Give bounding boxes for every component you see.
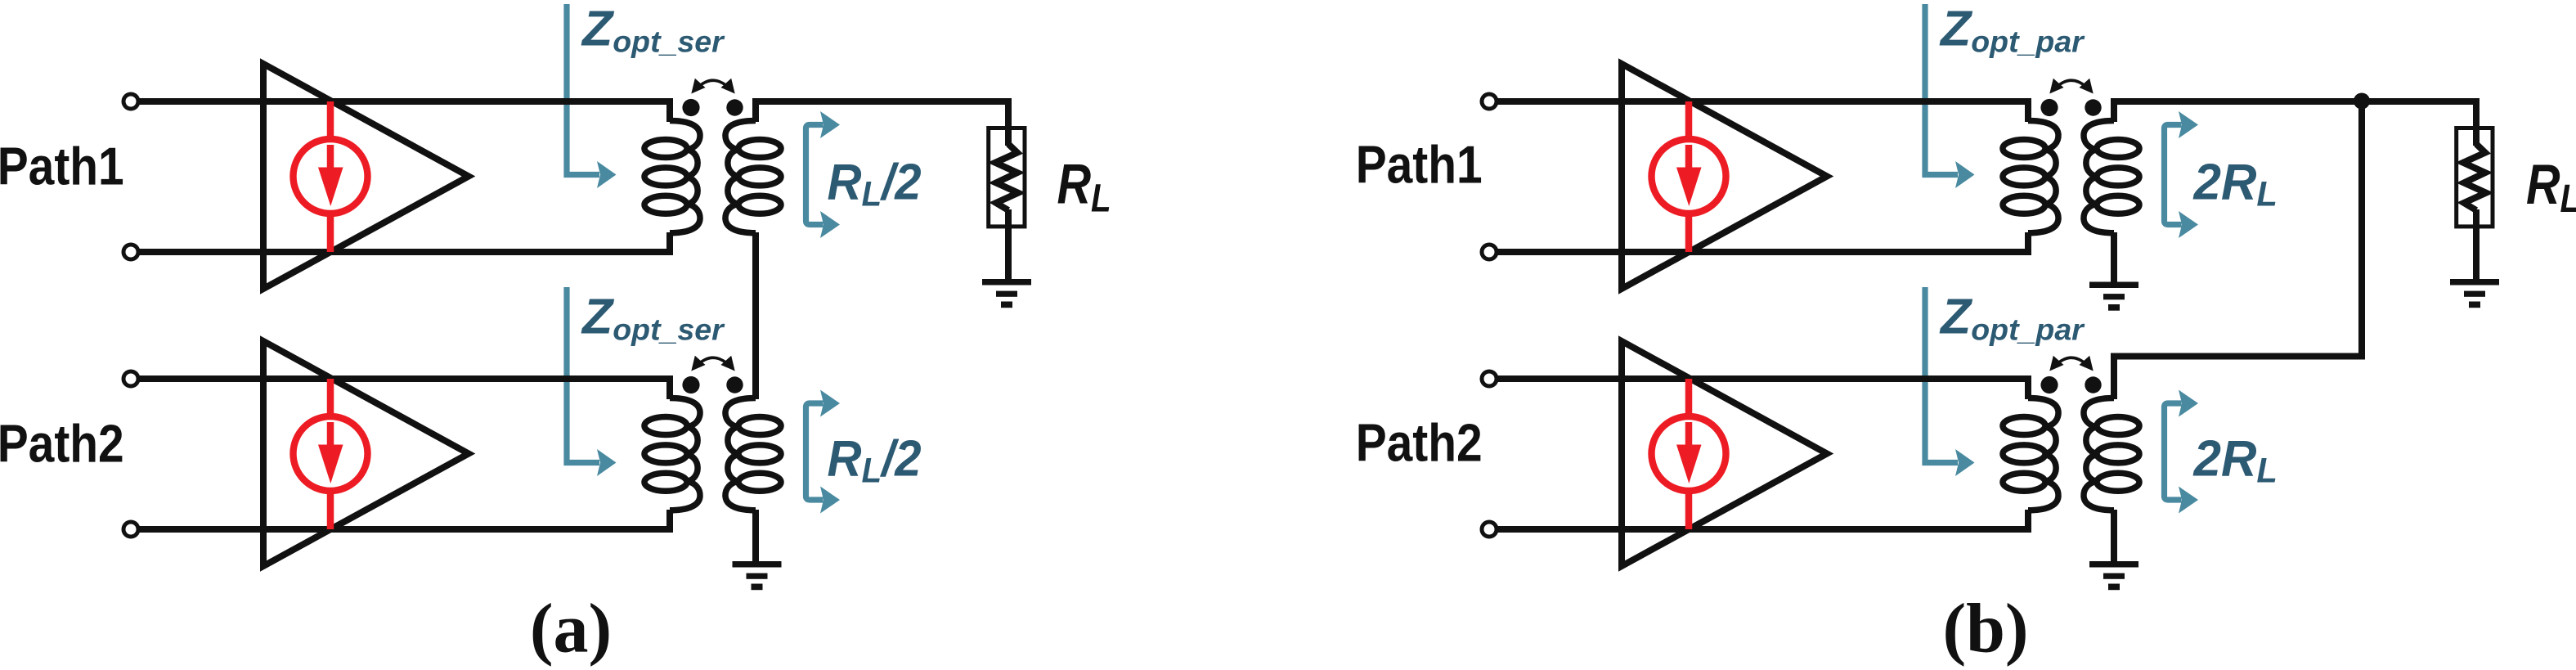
svg-text:Path1: Path1	[1356, 135, 1483, 195]
svg-text:RL/2: RL/2	[828, 430, 922, 490]
svg-text:Zopt_ser: Zopt_ser	[581, 1, 725, 59]
wire parallel link (b)	[2114, 98, 2362, 399]
svg-text:Path2: Path2	[0, 414, 124, 474]
svg-text:RL: RL	[2526, 154, 2576, 220]
Zopt arrow (a) Path2	[567, 287, 617, 476]
current source (b) Path1	[1652, 101, 1726, 252]
terminal input- (a) Path1	[123, 245, 138, 259]
transformer primary coil (a) Path2	[644, 398, 700, 510]
wire input top (b) Path2	[1495, 375, 2031, 382]
bracket arrows (a) Path1	[806, 111, 841, 238]
svg-text:(b): (b)	[1942, 589, 2028, 668]
ground (b) Path1 secondary	[2089, 282, 2138, 311]
label 2R_L (b) Path2	[2193, 430, 2278, 490]
svg-text:Path1: Path1	[0, 137, 124, 196]
dot primary (b) Path2	[2040, 376, 2058, 393]
wire input bottom (a) Path1	[137, 249, 673, 255]
Zopt arrow (b) Path1	[1925, 4, 1975, 188]
terminal input- (b) Path1	[1482, 245, 1497, 259]
Zopt arrow (b) Path2	[1925, 287, 1975, 476]
ground (a)	[982, 279, 1031, 308]
amplifier triangle (a) Path1	[263, 64, 469, 289]
wire secondary stem top (a) Path2	[752, 375, 759, 399]
current source (a) Path1	[294, 101, 368, 252]
dot secondary (b) Path1	[2085, 99, 2101, 115]
coupling arrow (a) Path2	[691, 356, 734, 371]
dot primary (a) Path1	[682, 99, 699, 116]
Zopt arrow (a) Path1	[567, 4, 617, 188]
transformer secondary coil (a) Path2	[725, 398, 781, 510]
wire primary stem top (b) Path2	[2025, 375, 2031, 399]
svg-text:Path2: Path2	[1356, 413, 1483, 473]
resistor R_L lead bottom (a)	[1005, 209, 1012, 281]
transformer secondary coil (a) Path1	[725, 121, 781, 233]
terminal input+ (b) Path2	[1482, 371, 1497, 386]
current source (b) Path2	[1652, 379, 1726, 529]
resistor R_L body (b)	[2457, 128, 2493, 227]
dot primary (a) Path2	[682, 376, 699, 393]
svg-text:(a): (a)	[530, 589, 612, 668]
dot primary (b) Path1	[2040, 99, 2058, 116]
label R_L (b)	[2526, 154, 2576, 220]
svg-text:2RL: 2RL	[2193, 430, 2278, 490]
svg-text:RL/2: RL/2	[828, 154, 922, 214]
wire input top (b) Path1	[1495, 98, 2031, 105]
transformer primary coil (a) Path1	[644, 121, 700, 233]
wire input bottom (b) Path1	[1495, 249, 2031, 255]
current source (a) Path2	[294, 379, 368, 529]
ground (b)	[2450, 279, 2499, 308]
coupling arrow (b) Path1	[2049, 79, 2093, 94]
label R_L/2 (a) Path2	[828, 430, 922, 490]
terminal input- (a) Path2	[123, 522, 138, 537]
wire secondary stem top (b) Path1	[2111, 98, 2117, 122]
dot secondary (a) Path2	[726, 376, 743, 393]
wire input bottom (a) Path2	[137, 526, 673, 533]
node junction (b)	[2354, 93, 2370, 110]
svg-text:RL: RL	[1057, 154, 1111, 220]
wire primary stem bottom (b) Path1	[2025, 232, 2031, 252]
wire secondary bottom to ground (a)	[752, 510, 759, 564]
wire primary stem bottom (a) Path2	[666, 510, 673, 529]
resistor R_L lead top (a)	[1005, 98, 1012, 146]
wire input top (a) Path1	[137, 98, 673, 105]
amplifier triangle (a) Path2	[263, 341, 469, 566]
dot secondary (b) Path2	[2085, 376, 2101, 393]
terminal input+ (a) Path1	[123, 94, 138, 109]
wire secondary bottom to ground (b) Path2	[2111, 510, 2117, 564]
transformer primary coil (b) Path2	[2003, 398, 2058, 510]
bracket arrows (b) Path1	[2165, 111, 2199, 238]
wire primary stem bottom (a) Path1	[666, 232, 673, 252]
wire input top (a) Path2	[137, 375, 673, 382]
wire series link (a)	[752, 232, 759, 399]
wire secondary top to load (b)	[2111, 98, 2476, 105]
coupling arrow (a) Path1	[691, 79, 734, 94]
label 2R_L (b) Path1	[2193, 154, 2278, 214]
ground (a) series	[733, 561, 782, 590]
resistor R_L body (a)	[989, 128, 1025, 227]
coupling arrow (b) Path2	[2049, 356, 2093, 371]
svg-text:2RL: 2RL	[2193, 154, 2278, 214]
resistor R_L lead top (b)	[2473, 98, 2480, 146]
terminal input- (b) Path2	[1482, 522, 1497, 537]
label R_L/2 (a) Path1	[828, 154, 922, 214]
wire primary stem top (a) Path1	[666, 98, 673, 122]
bracket arrows (b) Path2	[2165, 390, 2199, 514]
amplifier triangle (b) Path2	[1622, 341, 1827, 566]
amplifier triangle (b) Path1	[1622, 64, 1827, 289]
wire secondary bottom to ground (b) Path1	[2111, 232, 2117, 284]
terminal input+ (b) Path1	[1482, 94, 1497, 109]
svg-text:Zopt_par: Zopt_par	[1939, 289, 2085, 347]
transformer secondary coil (b) Path2	[2084, 398, 2139, 510]
bracket arrows (a) Path2	[806, 390, 841, 514]
svg-text:Zopt_ser: Zopt_ser	[581, 289, 725, 347]
label R_L (a)	[1057, 154, 1111, 220]
wire primary stem bottom (b) Path2	[2025, 510, 2031, 529]
ground (b) Path2 secondary	[2089, 561, 2138, 590]
transformer secondary coil (b) Path1	[2084, 121, 2139, 233]
wire secondary stem top (a) Path1	[752, 98, 759, 122]
wire primary stem top (a) Path2	[666, 375, 673, 399]
wire secondary to load (a)	[752, 98, 1008, 105]
terminal input+ (a) Path2	[123, 371, 138, 386]
transformer primary coil (b) Path1	[2003, 121, 2058, 233]
svg-text:Zopt_par: Zopt_par	[1939, 1, 2085, 59]
wire primary stem top (b) Path1	[2025, 98, 2031, 122]
dot secondary (a) Path1	[726, 99, 743, 115]
wire input bottom (b) Path2	[1495, 526, 2031, 533]
resistor R_L lead bottom (b)	[2473, 209, 2480, 281]
